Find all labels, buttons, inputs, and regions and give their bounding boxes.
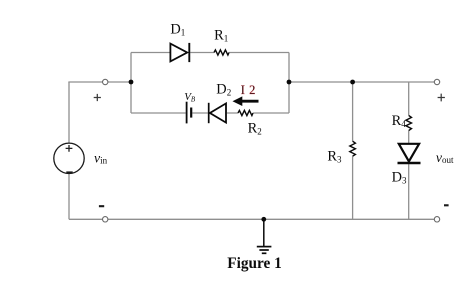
node terminal top-left xyxy=(103,79,108,84)
wire bottom rail xyxy=(69,218,437,220)
current arrow I2 xyxy=(233,96,259,106)
node terminal top-right xyxy=(434,79,439,84)
wire top branch segments (around D1, R1) xyxy=(131,52,289,54)
wire left branch connector xyxy=(130,53,132,114)
wire top-left rail xyxy=(68,81,131,83)
svg-text:Figure 1: Figure 1 xyxy=(227,255,282,272)
label + (left port) xyxy=(94,94,101,101)
wire left vertical bottom (source to bottom rail) xyxy=(68,173,70,219)
node ground junction xyxy=(261,217,266,222)
wire top-right rail xyxy=(289,81,437,83)
node terminal bottom-left xyxy=(103,217,108,222)
source vin circle xyxy=(54,143,84,173)
diode D2 xyxy=(209,103,226,123)
svg-text:I 2: I 2 xyxy=(241,83,256,97)
resistor R1 xyxy=(214,50,229,55)
label - (left port) xyxy=(99,205,104,207)
label + (right port) xyxy=(438,94,445,102)
node C (R3 tap) xyxy=(350,80,355,85)
wire R4-D3 branch xyxy=(408,82,410,219)
node A (left junction) xyxy=(129,80,134,85)
wire middle branch segments (around VB, D2, R2) xyxy=(131,112,289,114)
wire right branch connector xyxy=(288,53,290,114)
resistor R3 xyxy=(350,141,356,156)
diode D1 xyxy=(170,43,189,62)
node terminal bottom-right xyxy=(434,217,439,222)
ground xyxy=(257,219,272,253)
wire R3 branch xyxy=(352,82,354,219)
battery VB xyxy=(187,102,192,124)
wire left vertical top (source to top rail) xyxy=(68,82,70,143)
label - (right port) xyxy=(444,204,449,206)
resistor R2 xyxy=(238,110,253,115)
node B (right junction) xyxy=(287,80,292,85)
resistor R4 xyxy=(406,115,412,130)
diode D3 xyxy=(398,144,421,163)
